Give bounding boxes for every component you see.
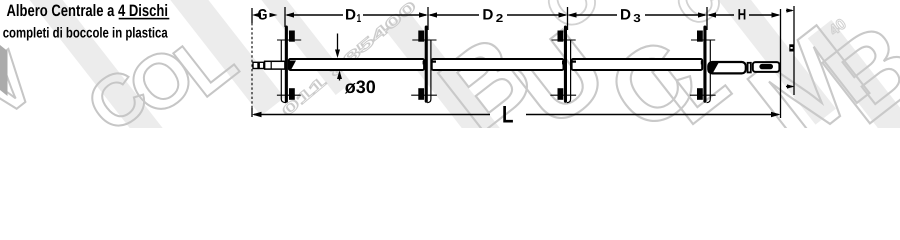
title underline under 4 Dischi <box>119 18 170 20</box>
label D1 <box>345 6 362 25</box>
right end plastic bushing <box>753 62 780 72</box>
watermark gray bar at left edge <box>0 45 8 96</box>
tube segment between disc 3 and disc 4 <box>572 59 703 70</box>
watermark serial number string <box>279 0 420 120</box>
tube segment between disc 2 and disc 3 <box>432 59 564 70</box>
disc 2 with bushings (hub on left) <box>411 26 437 103</box>
dimension G with arrows <box>252 12 278 17</box>
svg-text:G: G <box>258 6 268 23</box>
small end dimension arrow top <box>786 8 794 12</box>
svg-text:D: D <box>345 6 356 23</box>
extension tick disc 1 <box>284 7 286 27</box>
svg-text:3: 3 <box>633 13 641 25</box>
svg-text:L: L <box>502 102 514 129</box>
left stub shaft <box>265 61 285 69</box>
label D3 <box>620 6 641 25</box>
dimension D3 line with arrows <box>568 12 708 17</box>
watermark partial letter tops <box>530 0 733 45</box>
svg-text:ø30: ø30 <box>345 77 376 97</box>
diameter 30 up arrow <box>337 70 342 80</box>
dimension H line with arrows <box>707 12 781 17</box>
dimension D2 line with arrows <box>428 12 568 17</box>
extension line left end (dashed) <box>251 8 253 117</box>
disc 3 with bushings (hub on left) <box>550 26 576 103</box>
svg-text:2: 2 <box>496 13 504 25</box>
svg-text:Albero Centrale a 4 Dischi: Albero Centrale a 4 Dischi <box>7 2 169 20</box>
svg-text:1: 1 <box>357 13 362 25</box>
tube segment between disc 1 and disc 2 <box>289 59 424 70</box>
watermark outlined letters middle and right <box>418 0 900 173</box>
watermark outlined letters left <box>0 13 252 148</box>
diameter 30 down arrow <box>335 34 340 59</box>
dimension D1 line with arrows <box>285 12 428 17</box>
extension tick disc 2 <box>427 7 429 30</box>
splined stub end left <box>253 62 264 68</box>
disc 1 with bushings (hub on right) <box>277 26 301 103</box>
right end small collar <box>748 63 751 73</box>
disc 4 with bushings (hub on left) <box>690 26 716 103</box>
extension tick disc 3 <box>567 7 569 30</box>
extension line tube right end <box>780 9 782 118</box>
extension tick disc 4 <box>706 7 708 30</box>
right end shaft piece <box>708 62 746 73</box>
tiny rotated label on far right extension line <box>789 44 794 51</box>
svg-text:H: H <box>738 6 747 23</box>
label D2 <box>482 6 503 25</box>
svg-text:D: D <box>482 6 493 23</box>
small end dimension arrow bottom <box>786 84 795 88</box>
svg-text:D: D <box>620 6 631 23</box>
extension line far right end <box>793 6 795 95</box>
svg-text:completi di boccole in plastic: completi di boccole in plastica <box>3 26 169 42</box>
dimension L line with arrows <box>252 112 781 117</box>
